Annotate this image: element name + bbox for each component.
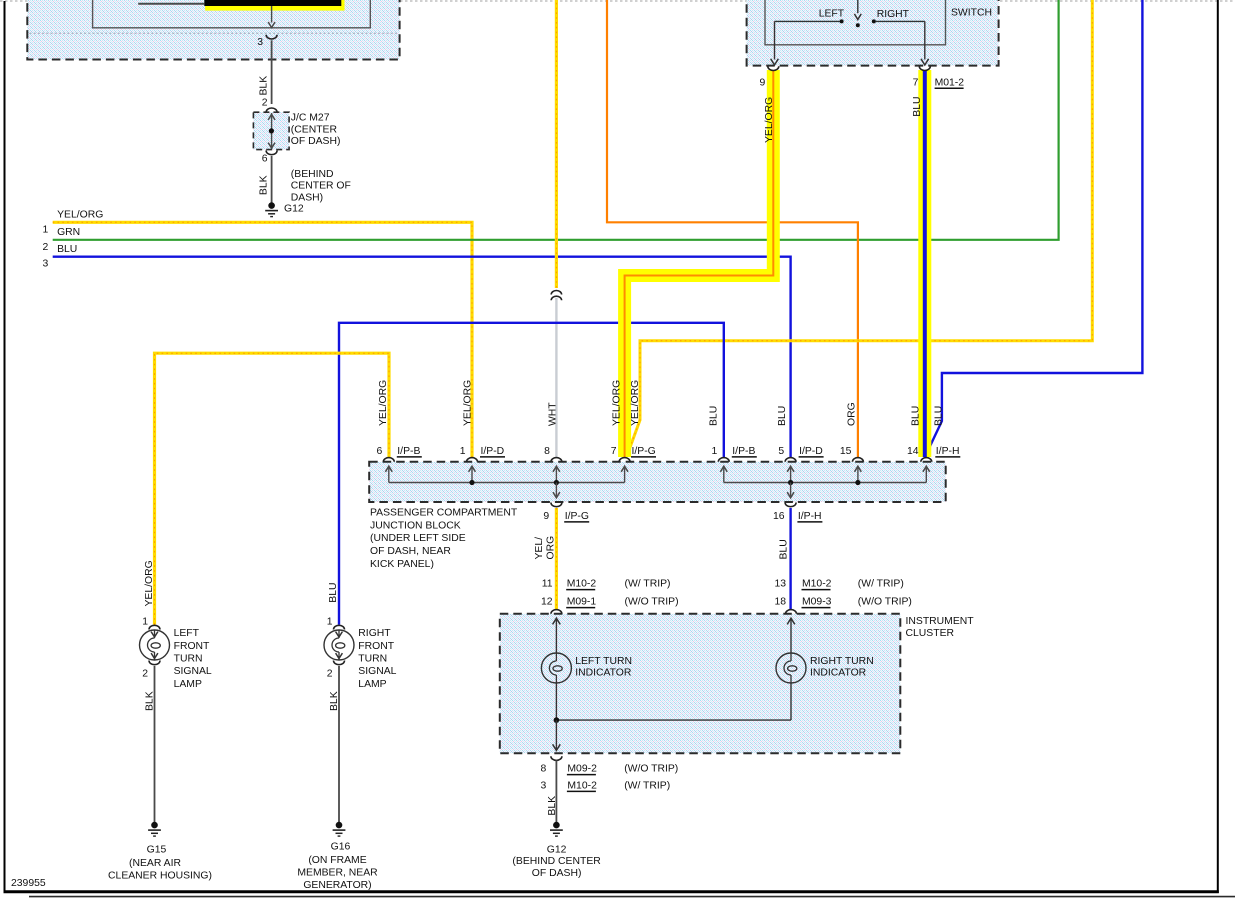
svg-text:J/C M27: J/C M27 xyxy=(291,113,330,124)
svg-text:YEL/: YEL/ xyxy=(534,537,545,560)
svg-text:FRONT: FRONT xyxy=(358,641,394,652)
svg-text:1: 1 xyxy=(460,446,466,457)
svg-text:BLK: BLK xyxy=(144,691,155,711)
svg-text:OF DASH): OF DASH) xyxy=(291,136,341,147)
svg-text:LEFT: LEFT xyxy=(174,628,200,639)
svg-text:2: 2 xyxy=(43,242,49,253)
svg-text:I/P-D: I/P-D xyxy=(799,446,823,457)
svg-text:M09-1: M09-1 xyxy=(567,597,597,608)
svg-text:(W/ TRIP): (W/ TRIP) xyxy=(625,579,671,590)
svg-text:M10-2: M10-2 xyxy=(567,780,597,791)
svg-text:CLUSTER: CLUSTER xyxy=(906,628,955,639)
svg-text:BLU: BLU xyxy=(912,96,923,116)
svg-text:I/P-G: I/P-G xyxy=(565,511,589,522)
svg-text:YEL/ORG: YEL/ORG xyxy=(57,210,103,221)
svg-text:(W/ TRIP): (W/ TRIP) xyxy=(858,579,904,590)
svg-text:YEL/ORG: YEL/ORG xyxy=(630,380,641,426)
svg-text:(ON FRAME: (ON FRAME xyxy=(308,855,366,866)
svg-text:I/P-B: I/P-B xyxy=(732,446,755,457)
svg-text:(W/O TRIP): (W/O TRIP) xyxy=(624,764,678,775)
svg-text:G12: G12 xyxy=(547,845,567,856)
svg-text:BLK: BLK xyxy=(258,76,269,96)
svg-text:FRONT: FRONT xyxy=(174,641,210,652)
svg-text:LAMP: LAMP xyxy=(358,679,386,690)
svg-text:6: 6 xyxy=(262,154,268,165)
svg-text:INDICATOR: INDICATOR xyxy=(810,668,867,679)
svg-text:LAMP: LAMP xyxy=(174,679,202,690)
svg-text:15: 15 xyxy=(840,446,852,457)
svg-text:JUNCTION BLOCK: JUNCTION BLOCK xyxy=(370,520,461,531)
svg-text:(W/ TRIP): (W/ TRIP) xyxy=(624,780,670,791)
svg-text:13: 13 xyxy=(774,579,786,590)
svg-text:8: 8 xyxy=(544,446,550,457)
svg-text:3: 3 xyxy=(257,37,263,48)
svg-text:INSTRUMENT: INSTRUMENT xyxy=(906,616,975,627)
svg-text:SIGNAL: SIGNAL xyxy=(174,666,212,677)
svg-text:(NEAR AIR: (NEAR AIR xyxy=(129,858,181,869)
svg-text:16: 16 xyxy=(773,511,785,522)
svg-text:(W/O TRIP): (W/O TRIP) xyxy=(625,597,679,608)
svg-text:(BEHIND CENTER: (BEHIND CENTER xyxy=(512,856,601,867)
svg-text:RIGHT TURN: RIGHT TURN xyxy=(810,656,874,667)
svg-text:I/P-H: I/P-H xyxy=(798,511,822,522)
svg-text:M10-2: M10-2 xyxy=(567,579,597,590)
svg-text:BLU: BLU xyxy=(777,406,788,426)
svg-text:G15: G15 xyxy=(147,845,167,856)
svg-text:3: 3 xyxy=(541,780,547,791)
svg-text:11: 11 xyxy=(542,579,553,590)
svg-text:9: 9 xyxy=(543,511,549,522)
svg-text:BLK: BLK xyxy=(547,796,558,816)
svg-text:PASSENGER COMPARTMENT: PASSENGER COMPARTMENT xyxy=(370,507,518,518)
svg-text:M01-2: M01-2 xyxy=(935,77,965,88)
svg-text:KICK PANEL): KICK PANEL) xyxy=(370,559,434,570)
svg-text:18: 18 xyxy=(774,597,786,608)
svg-text:M09-2: M09-2 xyxy=(567,764,597,775)
svg-text:5: 5 xyxy=(778,446,784,457)
svg-text:M10-2: M10-2 xyxy=(802,579,832,590)
svg-text:6: 6 xyxy=(377,446,383,457)
svg-text:LEFT: LEFT xyxy=(819,8,845,19)
svg-text:1: 1 xyxy=(142,617,148,628)
svg-text:(BEHIND: (BEHIND xyxy=(291,169,334,180)
svg-text:BLU: BLU xyxy=(933,406,944,426)
svg-text:YEL/ORG: YEL/ORG xyxy=(378,380,389,426)
svg-text:BLU: BLU xyxy=(57,244,77,255)
svg-text:1: 1 xyxy=(712,446,718,457)
svg-text:239955: 239955 xyxy=(11,878,46,889)
svg-text:DASH): DASH) xyxy=(291,193,323,204)
svg-text:(W/O TRIP): (W/O TRIP) xyxy=(858,597,912,608)
svg-text:G16: G16 xyxy=(331,842,351,853)
svg-text:I/P-B: I/P-B xyxy=(397,446,420,457)
svg-text:SIGNAL: SIGNAL xyxy=(358,666,396,677)
svg-text:YEL/ORG: YEL/ORG xyxy=(764,97,775,143)
svg-text:1: 1 xyxy=(43,224,49,235)
svg-text:YEL/ORG: YEL/ORG xyxy=(144,560,155,606)
svg-text:I/P-H: I/P-H xyxy=(936,446,960,457)
svg-text:ORG: ORG xyxy=(545,536,556,560)
svg-text:7: 7 xyxy=(913,77,919,88)
svg-text:2: 2 xyxy=(327,669,333,680)
svg-text:14: 14 xyxy=(907,446,919,457)
svg-text:YEL/ORG: YEL/ORG xyxy=(462,380,473,426)
svg-text:I/P-G: I/P-G xyxy=(632,446,656,457)
svg-text:(CENTER: (CENTER xyxy=(291,124,338,135)
svg-text:BLU: BLU xyxy=(328,582,339,602)
svg-text:TURN: TURN xyxy=(174,654,203,665)
svg-text:2: 2 xyxy=(262,97,268,108)
svg-text:BLU: BLU xyxy=(708,406,719,426)
svg-text:OF DASH, NEAR: OF DASH, NEAR xyxy=(370,546,451,557)
svg-text:RIGHT: RIGHT xyxy=(877,9,910,20)
svg-text:I/P-D: I/P-D xyxy=(481,446,505,457)
svg-text:12: 12 xyxy=(541,597,553,608)
svg-text:GENERATOR): GENERATOR) xyxy=(303,880,371,891)
svg-text:BLU: BLU xyxy=(779,539,790,559)
svg-text:YEL/ORG: YEL/ORG xyxy=(612,380,623,426)
svg-text:7: 7 xyxy=(611,446,617,457)
svg-text:ORG: ORG xyxy=(846,402,857,426)
svg-text:8: 8 xyxy=(541,764,547,775)
svg-text:G12: G12 xyxy=(284,204,304,215)
svg-text:(UNDER LEFT SIDE: (UNDER LEFT SIDE xyxy=(370,533,466,544)
svg-text:1: 1 xyxy=(327,617,333,628)
svg-text:2: 2 xyxy=(142,669,148,680)
svg-text:3: 3 xyxy=(43,259,49,270)
svg-text:INDICATOR: INDICATOR xyxy=(575,668,632,679)
svg-text:OF DASH): OF DASH) xyxy=(532,868,582,879)
svg-text:M09-3: M09-3 xyxy=(802,597,832,608)
svg-text:BLU: BLU xyxy=(910,406,921,426)
svg-text:CENTER OF: CENTER OF xyxy=(291,181,351,192)
svg-text:CLEANER HOUSING): CLEANER HOUSING) xyxy=(108,871,212,882)
svg-text:WHT: WHT xyxy=(547,402,558,426)
svg-text:TURN: TURN xyxy=(358,654,387,665)
svg-text:LEFT TURN: LEFT TURN xyxy=(575,656,632,667)
svg-text:RIGHT: RIGHT xyxy=(358,628,391,639)
svg-text:BLK: BLK xyxy=(329,691,340,711)
svg-text:SWITCH: SWITCH xyxy=(951,7,992,18)
svg-text:9: 9 xyxy=(760,77,766,88)
svg-text:BLK: BLK xyxy=(258,175,269,195)
svg-text:MEMBER, NEAR: MEMBER, NEAR xyxy=(297,867,378,878)
svg-text:GRN: GRN xyxy=(57,227,80,238)
